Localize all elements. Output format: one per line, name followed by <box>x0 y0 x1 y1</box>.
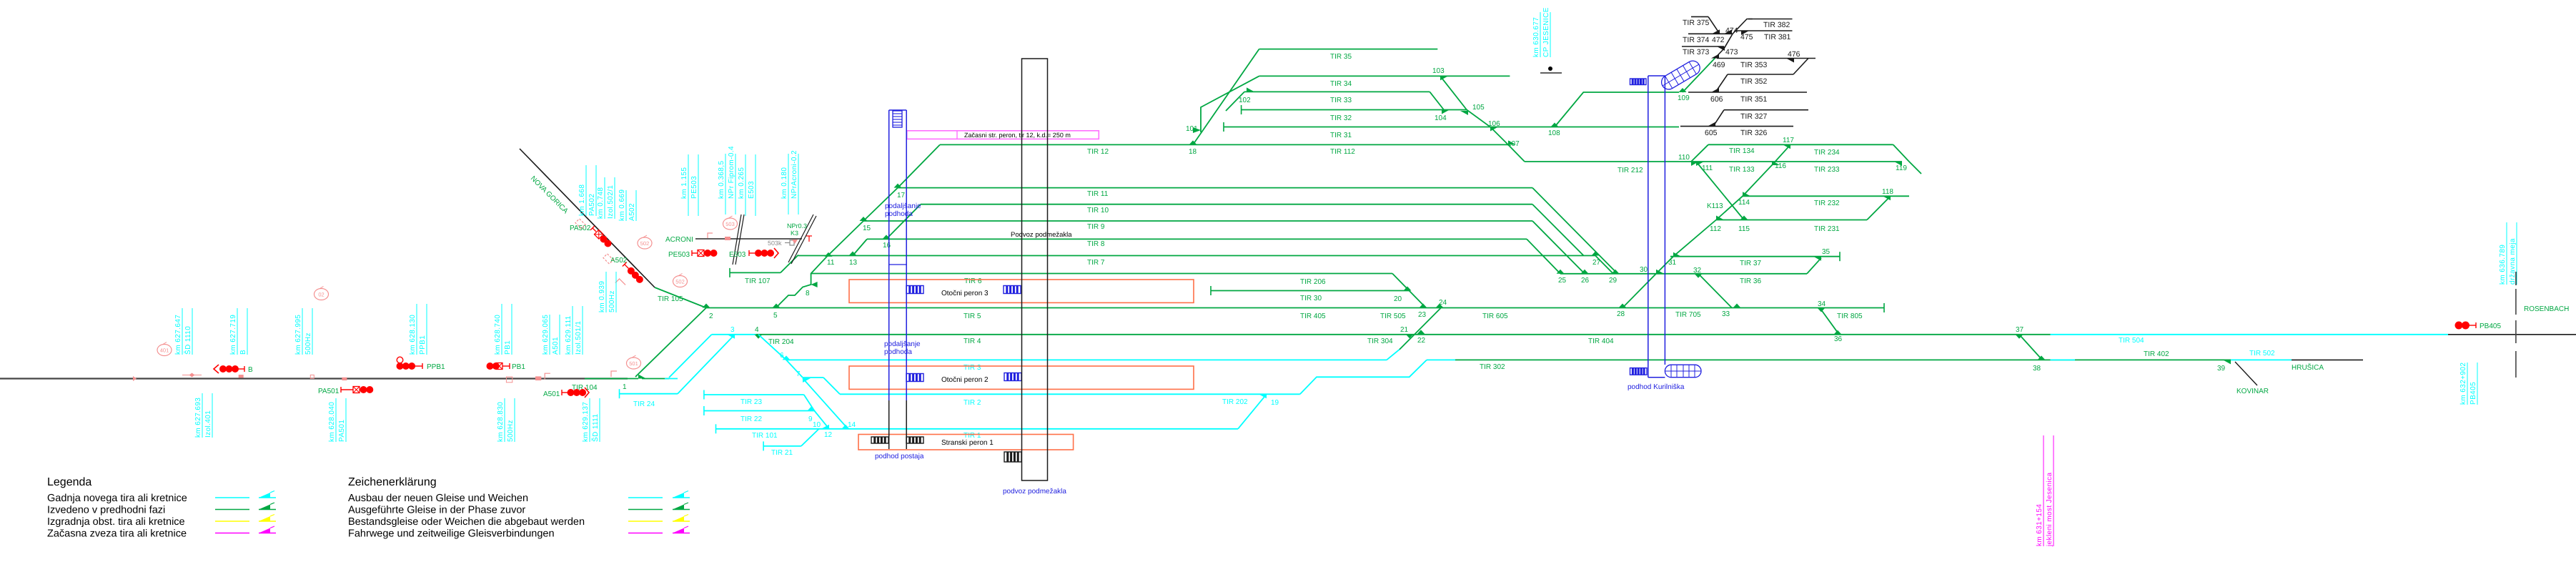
svg-text:TIR 212: TIR 212 <box>1618 167 1643 174</box>
svg-text:15: 15 <box>863 225 871 232</box>
wire diagonal TIR 24 to switch 3 <box>678 335 735 394</box>
svg-text:35: 35 <box>1822 248 1831 256</box>
wire TIR 10 descent to TIR 7 <box>1532 204 1584 256</box>
svg-text:Začasni str. peron, tir 12, k.: Začasni str. peron, tir 12, k.d.= 250 m <box>964 132 1071 139</box>
svg-text:32: 32 <box>1693 267 1702 275</box>
svg-text:km 0.939: km 0.939 <box>598 281 606 312</box>
svg-text:Legenda: Legenda <box>47 476 91 488</box>
wire connector 16 to TIR 10 <box>886 204 921 240</box>
svg-text:ŠD 1110: ŠD 1110 <box>184 326 192 355</box>
wire TIR 11 <box>898 187 1532 189</box>
pink marker rect open 1 <box>310 375 314 378</box>
svg-text:110: 110 <box>1678 154 1690 162</box>
wire TIR 101 / TIR 1 <box>716 428 1239 430</box>
wire TIR 3 <box>786 359 1387 360</box>
svg-text:TIR 206: TIR 206 <box>1300 278 1326 286</box>
svg-text:TIR 30: TIR 30 <box>1300 295 1322 302</box>
svg-text:TIR 327: TIR 327 <box>1740 112 1768 121</box>
switch 30 <box>1656 270 1664 274</box>
platform access hatch peron2 east <box>1004 373 1021 381</box>
svg-text:TIR 11: TIR 11 <box>1087 190 1109 198</box>
wire TIR 382 <box>1748 19 1793 20</box>
svg-text:27: 27 <box>1592 259 1601 267</box>
svg-text:PA502: PA502 <box>570 225 591 232</box>
svg-text:Izvedeno v predhodni fazi: Izvedeno v predhodni fazi <box>47 505 165 516</box>
svg-text:B: B <box>248 366 253 374</box>
switch 34 <box>1818 308 1826 312</box>
wire connector 116 to 117 <box>1772 144 1790 165</box>
node TIR 31 west tick <box>1223 122 1224 132</box>
structure podhod postaja extension shaft <box>888 110 890 400</box>
svg-text:TIR 202: TIR 202 <box>1222 398 1248 406</box>
svg-text:TIR 21: TIR 21 <box>771 449 793 457</box>
switch 29 <box>1612 270 1620 274</box>
wire TIR 30 <box>1211 290 1410 292</box>
svg-text:19: 19 <box>1271 399 1279 407</box>
switch 38 <box>2038 355 2046 360</box>
svg-text:TIR 353: TIR 353 <box>1740 61 1768 69</box>
svg-text:km 629.065: km 629.065 <box>542 315 550 355</box>
svg-text:TIR 31: TIR 31 <box>1330 132 1352 139</box>
svg-text:TIR 4: TIR 4 <box>963 337 981 345</box>
wire TIR 33 <box>1244 91 1430 92</box>
svg-text:TIR 35: TIR 35 <box>1330 53 1352 61</box>
switch 475 <box>1741 31 1749 35</box>
svg-text:TIR 326: TIR 326 <box>1740 129 1768 137</box>
svg-text:podhod postaja: podhod postaja <box>875 453 924 460</box>
switch 4 <box>755 335 763 339</box>
switch 18 <box>1189 140 1197 144</box>
wire TIR 381 <box>1735 30 1793 31</box>
wire connector 37 to 38 <box>2021 336 2041 359</box>
node TIR 30 west tick <box>1210 286 1212 295</box>
pink marker rect filled 1 <box>239 375 244 378</box>
svg-text:Stranski peron 1: Stranski peron 1 <box>941 439 994 447</box>
marker ellipse 502 upper <box>638 237 652 249</box>
svg-text:476: 476 <box>1788 50 1800 59</box>
wire green stub after 37 <box>2019 334 2051 335</box>
svg-text:TIR 705: TIR 705 <box>1675 311 1701 319</box>
svg-text:109: 109 <box>1678 94 1690 102</box>
signal B <box>214 365 219 373</box>
svg-text:km 627.719: km 627.719 <box>229 315 237 355</box>
svg-text:ŠD 1111: ŠD 1111 <box>591 413 600 442</box>
wire TIR 107 to TIR 7 connector <box>781 255 798 273</box>
platform access hatch peron2 west <box>906 374 923 382</box>
pink marker rect open 2 <box>506 377 512 383</box>
svg-text:36: 36 <box>1834 335 1843 343</box>
platform Zacasni str. peron tir 12 <box>907 131 1099 139</box>
svg-text:5: 5 <box>773 312 778 320</box>
svg-text:TIR 231: TIR 231 <box>1814 225 1840 233</box>
svg-text:119: 119 <box>1896 164 1907 172</box>
svg-text:TIR 133: TIR 133 <box>1729 166 1755 174</box>
node TIR 101 west tick <box>715 424 717 433</box>
svg-text:TIR 502: TIR 502 <box>2249 350 2275 357</box>
switch 6 <box>783 355 791 360</box>
stair hatch at shaft north end <box>893 111 902 127</box>
wire TIR 375 descent <box>1708 16 1720 34</box>
svg-text:TIR 504: TIR 504 <box>2119 337 2144 345</box>
svg-text:KOVINAR: KOVINAR <box>2236 388 2269 395</box>
svg-text:TIR 33: TIR 33 <box>1330 97 1352 104</box>
wire connector 110 to TIR 134 <box>1691 144 1708 162</box>
svg-text:HRUŠICA: HRUŠICA <box>2292 363 2324 372</box>
switch 14 <box>842 425 850 429</box>
switch 39 <box>2223 360 2231 364</box>
signal PB1 <box>487 363 493 370</box>
wire TIR 11 descent to 29 <box>1532 188 1618 274</box>
marker ellipse 502 lower <box>673 276 688 287</box>
wire TIR 22 <box>704 410 815 412</box>
svg-text:jekleni most Jesenica: jekleni most Jesenica <box>2046 473 2054 547</box>
switch 35 triangle <box>1813 257 1821 261</box>
svg-text:117: 117 <box>1783 137 1794 144</box>
svg-text:Podvoz podmežakla: Podvoz podmežakla <box>1011 231 1072 239</box>
svg-text:101: 101 <box>1186 125 1198 133</box>
switch 17 <box>894 184 902 188</box>
svg-text:503: 503 <box>725 221 735 227</box>
switch 23 <box>1420 304 1427 308</box>
svg-text:km 1.668: km 1.668 <box>578 184 586 216</box>
platform access hatch peron3 east <box>1004 286 1021 294</box>
wire TIR 2 / TIR 202 <box>840 393 1300 395</box>
svg-text:TIR 381: TIR 381 <box>1764 33 1791 41</box>
wire TIR 1 rise to switch 19 <box>1238 394 1267 429</box>
svg-text:km 631+154: km 631+154 <box>2036 504 2044 546</box>
structure podhod postaja original (black) <box>888 400 890 449</box>
wire TIR 33 end descent <box>1430 92 1444 109</box>
svg-text:TIR 605: TIR 605 <box>1482 312 1508 320</box>
wire main line west approach (gray) <box>0 378 628 379</box>
svg-text:500Hz: 500Hz <box>304 332 312 355</box>
svg-text:TIR 404: TIR 404 <box>1588 337 1614 345</box>
svg-text:TIR 6: TIR 6 <box>964 277 982 285</box>
wire TIR 373 <box>1682 46 1724 47</box>
svg-text:podhoda: podhoda <box>885 210 913 218</box>
svg-text:TIR 351: TIR 351 <box>1740 95 1768 104</box>
svg-text:km 627.647: km 627.647 <box>174 315 182 355</box>
switch 117 <box>1783 144 1790 149</box>
wire Rosenbach line black <box>2448 334 2576 335</box>
svg-text:103: 103 <box>1432 67 1445 75</box>
wire TIR 8 <box>867 238 1527 240</box>
svg-text:28: 28 <box>1617 310 1625 318</box>
pink marker bracket near switch 1 <box>611 371 617 377</box>
svg-text:12: 12 <box>824 431 833 439</box>
switch 16 <box>883 235 891 239</box>
wire TIR 231 rise to 118 <box>1867 196 1891 220</box>
wire cyan stub at main line <box>665 378 678 380</box>
svg-text:km 629.111: km 629.111 <box>565 315 573 355</box>
wire connector 32 to 33 <box>1698 274 1732 308</box>
svg-text:Otočni peron 3: Otočni peron 3 <box>941 290 989 297</box>
pink marker rect filled 2 <box>342 378 347 380</box>
signal PB405 <box>2455 322 2462 329</box>
platform Otocni peron 2 <box>849 366 1194 389</box>
wire TIR 502 cyan <box>2231 359 2292 360</box>
svg-text:14: 14 <box>848 421 856 429</box>
svg-text:TIR 204: TIR 204 <box>768 338 794 346</box>
svg-text:TIR 373: TIR 373 <box>1683 48 1710 56</box>
switch 472 triangle <box>1712 29 1720 34</box>
svg-text:NOVA GORICA: NOVA GORICA <box>529 174 570 215</box>
wire TIR 212 <box>1525 161 1691 162</box>
switch 103 <box>1440 76 1448 80</box>
switch 102 <box>1247 87 1254 92</box>
svg-text:401: 401 <box>160 347 169 354</box>
wire TIR 23 <box>704 394 804 395</box>
svg-text:E503: E503 <box>748 181 756 199</box>
svg-text:podvoz podmežakla: podvoz podmežakla <box>1003 488 1066 495</box>
svg-text:km 627.995: km 627.995 <box>294 315 302 355</box>
svg-text:105: 105 <box>1472 104 1485 112</box>
wire Kovinar siding diagonal <box>2235 362 2257 385</box>
svg-text:km 636.789: km 636.789 <box>2499 245 2507 285</box>
wire Hrusica line black <box>2292 359 2363 360</box>
svg-text:21: 21 <box>1400 326 1409 334</box>
svg-text:PA502: PA502 <box>588 194 596 216</box>
pink marker rect filled 3 <box>535 376 541 380</box>
pink marker diamond <box>189 373 195 378</box>
switch 469 <box>1711 54 1719 59</box>
switch 5 <box>773 304 781 308</box>
svg-text:TIR 34: TIR 34 <box>1330 80 1352 88</box>
wire connector 9 to 12 <box>814 411 829 429</box>
switch 28 <box>1619 304 1627 308</box>
svg-text:116: 116 <box>1775 162 1786 170</box>
signal mark T end of ACRONI <box>806 235 812 237</box>
switch 105 <box>1460 111 1468 115</box>
switch 24 <box>1436 304 1444 308</box>
switch 21 <box>1406 334 1414 338</box>
switch 19 <box>1259 394 1267 398</box>
hatch box below stranski peron <box>1004 452 1021 462</box>
wire ladder 28-30-31-112-114-116 <box>1623 162 1775 308</box>
svg-text:ROSENBACH: ROSENBACH <box>2524 305 2569 313</box>
platform Stranski peron 1 <box>858 435 1074 450</box>
marker ellipse 401 <box>157 345 172 356</box>
wire diagonal TIR 104 to TIR 4 <box>669 335 712 378</box>
switch 108 <box>1551 123 1559 127</box>
svg-text:29: 29 <box>1609 277 1618 285</box>
svg-text:TIR 2: TIR 2 <box>963 399 981 407</box>
svg-text:km 0.180: km 0.180 <box>781 167 788 199</box>
svg-text:E503: E503 <box>729 251 746 259</box>
svg-text:TIR 36: TIR 36 <box>1740 277 1761 285</box>
svg-text:4: 4 <box>755 326 759 334</box>
svg-text:111: 111 <box>1702 164 1713 172</box>
switch 31 <box>1673 252 1681 257</box>
svg-text:TIR 374: TIR 374 <box>1683 36 1710 44</box>
svg-text:PB405: PB405 <box>2480 322 2501 330</box>
pink dashed rects on Nova Gorica diagonal <box>575 219 585 229</box>
svg-text:469: 469 <box>1713 61 1725 69</box>
svg-text:PB1: PB1 <box>512 363 525 371</box>
node TIR 37 east tick <box>1839 252 1841 261</box>
svg-text:Začasna zveza tira ali kretnic: Začasna zveza tira ali kretnice <box>47 528 187 540</box>
svg-text:km 630.677: km 630.677 <box>1532 17 1540 57</box>
wire TIR 352 <box>1728 74 1793 75</box>
pink marker bracket <box>545 373 550 379</box>
wire TIR 107 <box>730 272 781 273</box>
svg-text:Izol.401: Izol.401 <box>204 410 212 438</box>
switch 33 <box>1733 304 1741 308</box>
wire connector 34 to 36 <box>1820 308 1839 335</box>
switch 114 <box>1743 192 1750 196</box>
svg-text:108: 108 <box>1548 129 1560 137</box>
switch 12 <box>821 425 829 429</box>
wire TIR 34 <box>1259 75 1510 77</box>
node TIR 21 west tick <box>763 441 764 450</box>
svg-text:Otočni peron 2: Otočni peron 2 <box>941 376 989 384</box>
wire TIR 7 <box>798 255 1595 257</box>
wire TIR 206 descent to switch 23 <box>1392 274 1426 308</box>
svg-text:34: 34 <box>1818 300 1826 308</box>
switch 474 triangle <box>1724 29 1732 34</box>
svg-text:TIR 22: TIR 22 <box>740 415 762 423</box>
svg-text:PB405: PB405 <box>2470 382 2477 405</box>
node TIR 107 west tick <box>729 268 730 277</box>
wire green diagonal 109 to 469 <box>1683 57 1716 93</box>
svg-text:TIR 9: TIR 9 <box>1087 223 1105 231</box>
marker dot CP Jesenice <box>1548 66 1552 71</box>
wire TIR 37 <box>1670 256 1840 257</box>
svg-text:Izol.501/1: Izol.501/1 <box>575 321 583 355</box>
switch 32 <box>1695 274 1703 278</box>
svg-text:38: 38 <box>2033 365 2041 373</box>
svg-text:PPB1: PPB1 <box>419 335 427 355</box>
wire TIR 302 / TIR 402 <box>1455 359 2231 360</box>
node TIR 22 west tick <box>703 406 705 415</box>
wire Nova Gorica branch (black diagonal) <box>520 149 655 287</box>
wire TIR 351 black <box>1688 92 1807 93</box>
svg-text:K113: K113 <box>1707 202 1723 210</box>
svg-text:podaljšanje: podaljšanje <box>885 202 921 210</box>
svg-text:A501: A501 <box>543 390 560 398</box>
svg-text:10: 10 <box>813 421 821 429</box>
svg-text:Bestandsgleise oder Weichen di: Bestandsgleise oder Weichen die abgebaut… <box>348 516 585 528</box>
svg-text:km 0.669: km 0.669 <box>618 189 626 221</box>
svg-text:podhod Kurilniška: podhod Kurilniška <box>1628 383 1685 391</box>
svg-text:A502: A502 <box>628 203 636 221</box>
node TIR 32 west tick <box>1241 105 1242 114</box>
wire cyan segment before TIR 302 <box>1427 359 1455 360</box>
svg-text:TIR 112: TIR 112 <box>1330 148 1355 156</box>
svg-text:K3: K3 <box>791 230 798 237</box>
svg-text:TIR 101: TIR 101 <box>752 432 778 440</box>
stripe box north <box>1630 79 1647 85</box>
wire diagonal switch1 to switch2 <box>635 308 706 378</box>
wire TIR 5 / 405 / 505 / 605 / 705 / 805 <box>706 307 1884 309</box>
wire TIR 133 / TIR 233 <box>1691 161 1902 162</box>
marker ellipse 501 <box>627 357 641 369</box>
svg-text:16: 16 <box>883 242 891 250</box>
svg-text:A501: A501 <box>552 337 560 355</box>
wire TIR 10 <box>921 204 1532 205</box>
svg-text:CP JESENICE: CP JESENICE <box>1542 7 1550 57</box>
switch 3 <box>727 335 735 339</box>
svg-text:107: 107 <box>1507 140 1520 148</box>
svg-text:11: 11 <box>827 259 835 267</box>
switch 111 <box>1696 162 1704 166</box>
svg-text:30: 30 <box>1640 266 1648 274</box>
svg-text:TIR 5: TIR 5 <box>963 312 981 320</box>
wire TIR 9 <box>863 220 1532 222</box>
switch 7 <box>803 378 811 383</box>
switch 25 <box>1557 270 1565 274</box>
switch 118 <box>1883 196 1891 200</box>
svg-text:22: 22 <box>1417 337 1426 345</box>
switch 26 <box>1581 270 1589 274</box>
signal PPB1 <box>397 357 403 363</box>
svg-text:km 632+902: km 632+902 <box>2459 363 2467 405</box>
wire TIR 327 <box>1724 109 1808 111</box>
svg-text:TIR 107: TIR 107 <box>745 277 771 285</box>
wire TIR 12 / TIR 112 <box>940 144 1508 145</box>
svg-text:TIR 134: TIR 134 <box>1729 147 1755 155</box>
platform access hatch stranski west <box>871 437 888 443</box>
wire cyan patch after switch 38 <box>2051 359 2076 360</box>
node TIR 24 west tick <box>619 389 620 398</box>
wire connector 107 to TIR 212 <box>1508 144 1525 162</box>
wire TIR 232 <box>1743 195 1909 197</box>
wire TIR 4 / 204 / 304 / 404 <box>756 334 2019 335</box>
svg-text:605: 605 <box>1705 129 1718 137</box>
marker ellipse 02 <box>314 289 329 300</box>
svg-text:472: 472 <box>1712 36 1725 44</box>
wire TIR 32 <box>1242 109 1467 111</box>
svg-text:TIR 402: TIR 402 <box>2144 350 2169 358</box>
wire TIR 8 descent to 25 <box>1527 239 1560 273</box>
svg-text:503k: 503k <box>768 240 782 247</box>
wire switch 7 horizontal <box>803 377 823 378</box>
svg-text:31: 31 <box>1668 259 1677 267</box>
platform Otocni peron 3 <box>849 280 1194 302</box>
svg-text:20: 20 <box>1394 295 1402 303</box>
level crossing NPr double lines 2 (Acroni) <box>788 214 813 262</box>
platform access hatch stranski east <box>906 437 923 443</box>
wire TIR 504 cyan <box>2051 334 2449 335</box>
wire TIR 35 <box>1259 49 1438 50</box>
wire connector TIR 23 to 9 <box>804 395 815 411</box>
wire fan descent 103-105-106-107 <box>1440 76 1508 144</box>
svg-text:Fahrwege und zeitweilige Gleis: Fahrwege und zeitweilige Gleisverbindung… <box>348 528 555 540</box>
wire connector 6 to 7 <box>786 360 803 378</box>
state border dashed line (Rosenbach) <box>2515 289 2517 315</box>
svg-text:km 628.040: km 628.040 <box>328 402 336 442</box>
svg-text:23: 23 <box>1418 311 1427 319</box>
svg-text:13: 13 <box>849 259 858 267</box>
wire connector 606 to TIR 352 <box>1715 74 1728 92</box>
switch 110 <box>1691 162 1699 166</box>
svg-text:TIR 37: TIR 37 <box>1740 260 1761 267</box>
svg-text:606: 606 <box>1710 95 1723 104</box>
svg-text:Izol.502/1: Izol.502/1 <box>607 185 615 219</box>
wire TIR 326 <box>1680 126 1793 127</box>
switch 115 <box>1740 216 1748 220</box>
svg-text:TIR 24: TIR 24 <box>633 400 655 408</box>
svg-text:km 628.740: km 628.740 <box>494 315 502 355</box>
svg-text:TIR 304: TIR 304 <box>1367 337 1393 345</box>
svg-text:TIR 8: TIR 8 <box>1087 240 1105 248</box>
structure Kurilniska ramp south <box>1665 365 1701 378</box>
svg-text:TIR 3: TIR 3 <box>963 364 981 372</box>
svg-text:502: 502 <box>640 240 650 247</box>
wire TIR 31 <box>1224 127 1679 128</box>
wire connector 108 up to 109 line <box>1555 92 1679 127</box>
pink markers on ACRONI line <box>708 233 713 238</box>
